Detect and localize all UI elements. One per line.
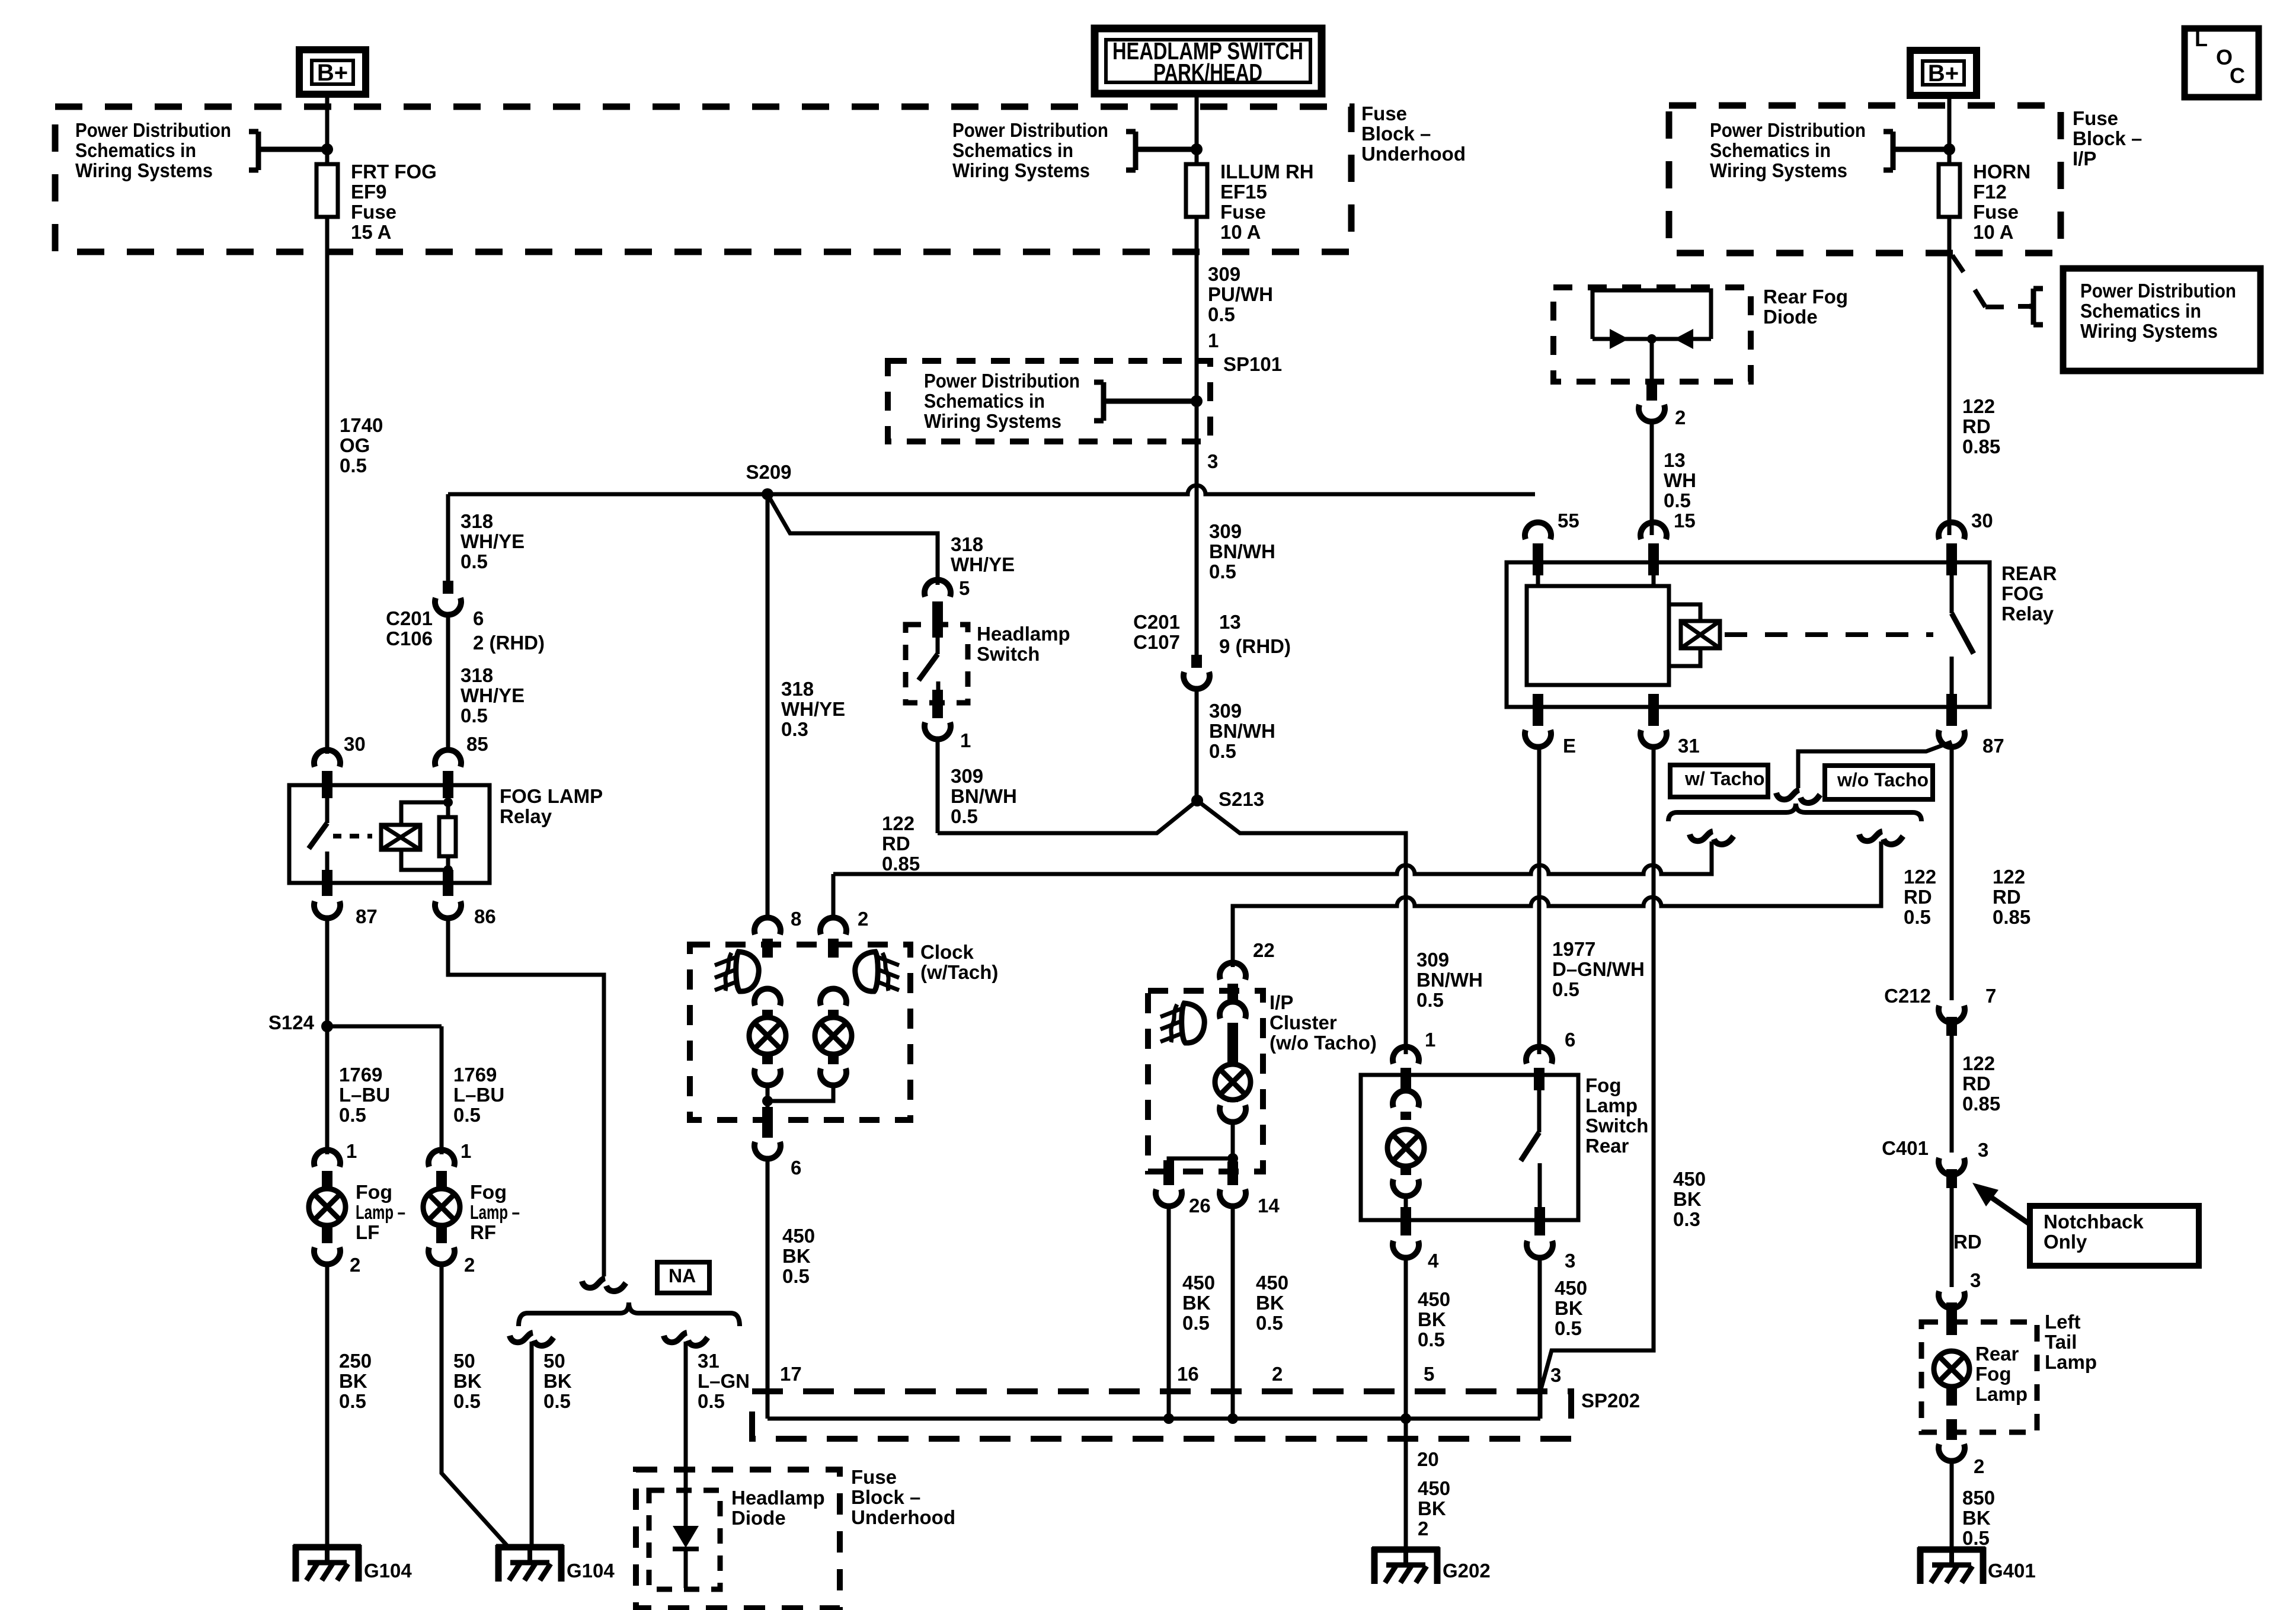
connector rear fog lamp 2	[1939, 1444, 1965, 1461]
dashed box Fuse Block - I/P	[1669, 105, 2061, 253]
svg-text:C201C106: C201C106	[386, 607, 433, 649]
svg-text:85: 85	[466, 733, 488, 755]
wire 318 WH/YE S209 bus	[448, 485, 1535, 494]
wire 309 BN/WH from switch	[936, 740, 940, 833]
connector relay pin E	[1525, 730, 1551, 747]
dashed box rear fog diode	[1553, 287, 1751, 382]
wire 450 BK pin26	[1167, 1206, 1171, 1419]
dashed box I/P cluster	[1148, 991, 1263, 1172]
svg-text:3: 3	[1565, 1250, 1575, 1272]
svg-text:7: 7	[1985, 985, 1996, 1007]
bracket ref 2	[1126, 132, 1193, 170]
lamp clock 1	[749, 1017, 786, 1054]
relay coil fog lamp relay	[350, 834, 372, 838]
fuse EF15 ILLUM RH 10A	[1186, 164, 1207, 217]
wire B+ to fuse F12	[1948, 95, 1952, 164]
svg-text:G104: G104	[567, 1560, 615, 1582]
connector C401	[1939, 1158, 1965, 1175]
svg-text:2: 2	[1974, 1455, 1984, 1477]
option box w/ Tacho	[1670, 765, 1768, 797]
relay blade fog lamp relay	[325, 785, 330, 823]
wire 1769 L-BU	[325, 918, 330, 1026]
svg-text:20: 20	[1417, 1448, 1439, 1470]
wire 450 BK from clock	[766, 1159, 770, 1419]
dashed box SP101 ref	[888, 361, 1210, 441]
svg-text:1: 1	[1425, 1029, 1435, 1051]
connector switch pin 3	[1527, 1241, 1553, 1258]
svg-text:14: 14	[1258, 1195, 1280, 1217]
relay coil resistor	[439, 817, 456, 856]
svg-text:SP202: SP202	[1581, 1390, 1640, 1411]
junction on EF9 feed	[321, 143, 333, 155]
connector headlamp switch pin 1	[925, 722, 951, 740]
junction on F12 feed	[1943, 143, 1955, 155]
wire 122 RD 0.85 down	[1950, 747, 1954, 1000]
svg-text:16: 16	[1177, 1363, 1199, 1385]
switch lamp top conn	[1393, 1090, 1419, 1108]
option box NA	[657, 1262, 709, 1293]
wire 450 BK to G202	[1404, 1258, 1408, 1548]
junction sp202 b	[1227, 1413, 1238, 1424]
svg-text:G104: G104	[364, 1560, 412, 1582]
svg-text:2: 2	[1675, 406, 1686, 428]
wire to pin 14	[1231, 1158, 1235, 1172]
diode pair rear fog diode	[1593, 290, 1711, 339]
connector relay pin 31	[1641, 730, 1667, 747]
break tick on wire	[1952, 255, 1964, 272]
reference box LOC	[2185, 28, 2259, 97]
wire 122 RD to relay 30	[1948, 217, 1952, 535]
wire 318 WH/YE to relay 85	[446, 615, 450, 752]
svg-text:87: 87	[1982, 735, 2004, 757]
icon fog beam right	[855, 952, 899, 991]
switch blade headlamp switch	[936, 625, 940, 654]
dashed box Fuse Block - Underhood	[55, 107, 1351, 252]
box REAR FOG relay	[1507, 562, 1990, 707]
connector lamp RF 1	[428, 1150, 455, 1167]
connector C201/C106	[435, 598, 461, 615]
diode headlamp diode	[673, 1526, 699, 1548]
wire 450 BK pin14	[1231, 1206, 1235, 1419]
svg-text:1: 1	[461, 1140, 471, 1162]
lamp fog RF	[423, 1189, 460, 1225]
break w/Tacho branch	[1690, 831, 1734, 844]
wire 122 RD to C401	[1950, 1036, 1954, 1153]
lamp rear fog	[1934, 1351, 1969, 1387]
svg-text:8: 8	[791, 908, 801, 930]
relay control module box	[1527, 586, 1669, 685]
svg-text:87: 87	[356, 905, 378, 927]
wire 50 BK RF	[442, 1265, 509, 1547]
svg-text:NA: NA	[669, 1265, 696, 1286]
svg-text:3: 3	[1970, 1269, 1981, 1291]
svg-text:2: 2	[858, 908, 868, 930]
connector clock pin 8	[754, 917, 781, 934]
svg-text:3: 3	[1550, 1364, 1561, 1386]
splice S124	[321, 1020, 333, 1032]
connector relay pin 87	[1939, 730, 1965, 747]
wire 13 WH	[1650, 422, 1654, 535]
break 31 L-GN option	[664, 1333, 708, 1346]
dashed link coil to contact	[1725, 632, 1933, 637]
wire 31 L-GN	[684, 1342, 688, 1526]
wire down to clock pin 2	[832, 874, 836, 920]
junction clock	[762, 1096, 773, 1106]
wire diode out	[1650, 339, 1654, 382]
wire w/o Tacho branch	[1879, 841, 1884, 906]
wire 122 RD to clock pin 2	[833, 841, 1712, 874]
connector clock pin 6	[754, 1142, 781, 1159]
connector C212	[1939, 1006, 1965, 1023]
wire RD notchback	[1950, 1188, 1954, 1287]
junction sp202 c	[1400, 1413, 1411, 1424]
connector relay pin 55	[1525, 522, 1551, 539]
dashed box left tail lamp	[1921, 1322, 2037, 1432]
svg-text:S213: S213	[1219, 788, 1264, 810]
cluster lamp top conn	[1220, 1001, 1246, 1019]
svg-text:C401: C401	[1882, 1137, 1929, 1159]
power symbol B+ (left)	[299, 50, 366, 94]
break NA option	[582, 1278, 626, 1291]
svg-text:2: 2	[350, 1254, 360, 1276]
svg-text:4: 4	[1428, 1250, 1439, 1272]
connector lamp LF 2	[314, 1247, 340, 1265]
svg-text:C212: C212	[1884, 985, 1931, 1007]
connector headlamp switch pin 5	[925, 580, 951, 597]
svg-text:2: 2	[1272, 1363, 1283, 1385]
svg-text:C: C	[2230, 63, 2245, 88]
splice SP101	[1191, 395, 1203, 407]
reference branch to power distribution (solid box)	[1975, 290, 1985, 307]
lamp clock 2	[815, 1017, 852, 1054]
clock lamp1 top conn	[754, 988, 781, 1006]
svg-text:5: 5	[1424, 1363, 1434, 1385]
wire clock lamps join	[768, 1086, 833, 1101]
wire S124 branch	[327, 1025, 442, 1029]
svg-text:15: 15	[1674, 510, 1696, 532]
bracket ref 5	[2029, 289, 2043, 325]
svg-text:6: 6	[1565, 1029, 1575, 1051]
wire 50 BK option b	[530, 1342, 534, 1546]
junction cluster	[1227, 1153, 1238, 1164]
svg-text:w/ Tacho: w/ Tacho	[1684, 768, 1765, 789]
wire 250 BK	[325, 1265, 330, 1546]
bracket ref 1	[249, 132, 324, 170]
connector relay pin 15	[1641, 522, 1667, 539]
wire to RF lamp	[440, 1026, 444, 1154]
svg-text:5: 5	[959, 577, 970, 599]
dashed box SP202	[752, 1391, 1571, 1439]
bracket ref 4	[1884, 132, 1946, 170]
solid box power distribution ref	[2063, 268, 2260, 371]
wire 318 WH/YE to C201	[446, 494, 450, 581]
lamp cluster	[1215, 1064, 1251, 1100]
box fog lamp switch rear	[1361, 1075, 1578, 1220]
svg-text:6: 6	[791, 1157, 801, 1179]
wire 87 to tacho options	[1798, 742, 1952, 788]
connector cluster pin 26	[1156, 1189, 1182, 1206]
component box HEADLAMP SWITCH PARK/HEAD	[1095, 28, 1322, 94]
connector lamp LF 1	[314, 1150, 340, 1167]
svg-text:3: 3	[1207, 450, 1218, 472]
svg-text:2: 2	[464, 1254, 475, 1276]
wire 850 BK	[1950, 1461, 1954, 1550]
wire 1977 D-GN/WH	[1537, 747, 1542, 1054]
ground G104 right	[496, 1545, 564, 1582]
svg-text:w/o Tacho: w/o Tacho	[1837, 769, 1929, 790]
svg-text:B+: B+	[317, 60, 348, 86]
svg-text:22: 22	[1253, 939, 1275, 961]
icon fog beam cluster	[1160, 1003, 1204, 1043]
svg-text:E: E	[1563, 735, 1576, 757]
wire B+ to fuse EF9	[325, 94, 330, 164]
dashed box headlamp diode	[649, 1490, 720, 1589]
connector relay30	[314, 750, 340, 767]
relay contact blade	[1950, 562, 1954, 613]
dashed box clock w/Tach	[690, 945, 910, 1120]
junction sp202 a	[1163, 1413, 1174, 1424]
wire S209 to headlamp switch	[768, 494, 938, 585]
arrow notchback only	[1972, 1183, 1998, 1206]
brace NA options	[519, 1302, 740, 1326]
connector switch pin 4	[1393, 1241, 1419, 1258]
wire S213 branches	[938, 801, 1406, 1054]
dashed box headlamp switch	[906, 625, 968, 703]
power symbol B+ (right)	[1910, 50, 1977, 95]
wire 318 WH/YE 0.3 to clock pin 8	[766, 494, 770, 920]
svg-text:30: 30	[344, 733, 366, 755]
lamp fog switch	[1387, 1129, 1424, 1166]
svg-text:C201C107: C201C107	[1133, 611, 1180, 653]
option box w/o Tacho	[1825, 766, 1933, 799]
ground G202	[1372, 1547, 1440, 1584]
wire w/Tacho branch	[1710, 841, 1714, 874]
svg-text:S209: S209	[746, 461, 791, 483]
wire to LF lamp	[325, 1026, 330, 1154]
svg-text:3: 3	[1978, 1139, 1988, 1161]
svg-text:L: L	[2195, 27, 2208, 51]
connector relay87	[314, 901, 340, 918]
connector fog switch pin 6	[1526, 1046, 1552, 1064]
connector clock pin 2	[820, 917, 846, 934]
splice S213	[1191, 795, 1203, 806]
svg-text:1: 1	[346, 1140, 357, 1162]
svg-text:2 (RHD): 2 (RHD)	[473, 632, 545, 654]
svg-text:SP101: SP101	[1223, 353, 1282, 375]
svg-text:9 (RHD): 9 (RHD)	[1219, 635, 1291, 657]
connector lamp RF 2	[428, 1247, 455, 1265]
wire 122 RD to cluster pin 22	[1233, 841, 1881, 967]
bus wire SP202	[768, 1417, 1540, 1421]
clock lamp2 top conn	[820, 988, 846, 1006]
wire 309 BN/WH to S213	[1195, 689, 1199, 801]
svg-text:B+: B+	[1928, 60, 1959, 87]
connector cluster pin 14	[1220, 1189, 1246, 1206]
break 50BK option	[510, 1333, 554, 1346]
box notchback only	[2030, 1206, 2199, 1266]
svg-text:6: 6	[473, 607, 484, 629]
switch blade fog lamp switch rear	[1537, 1075, 1542, 1132]
svg-text:30: 30	[1971, 510, 1993, 532]
svg-text:G401: G401	[1988, 1560, 2036, 1582]
fuse F12 HORN 10A	[1939, 164, 1960, 217]
svg-text:31: 31	[1678, 735, 1700, 757]
dashed box fuse block underhood (diode)	[636, 1470, 840, 1608]
icon fog beam left	[715, 952, 759, 991]
connector cluster pin 22	[1220, 962, 1246, 980]
svg-text:86: 86	[474, 905, 496, 927]
wire 86 to NA option	[448, 918, 604, 1276]
connector fog switch pin 1	[1393, 1046, 1419, 1064]
wire 1740 OG	[325, 217, 330, 754]
break to options	[1776, 790, 1820, 803]
connector C201/C107	[1184, 672, 1210, 689]
junction on EF15 feed	[1191, 143, 1203, 155]
relay coil with leads	[1669, 604, 1700, 621]
connector relay pin 30	[1939, 522, 1965, 539]
wire 309 PU/WH	[1195, 217, 1199, 655]
svg-text:G202: G202	[1443, 1560, 1491, 1582]
connector rear fog lamp 3	[1939, 1291, 1965, 1308]
svg-text:17: 17	[780, 1363, 802, 1385]
connector 2 of diode	[1639, 405, 1665, 422]
bracket ref 3	[1094, 382, 1192, 421]
connector relay86	[435, 901, 461, 918]
svg-text:26: 26	[1189, 1195, 1211, 1217]
connector relay85	[435, 750, 461, 767]
wire 450 BK pin3	[1538, 1258, 1542, 1419]
svg-text:1: 1	[1208, 329, 1219, 351]
svg-text:13: 13	[1219, 611, 1241, 633]
wire 450 BK 0.3	[1540, 747, 1654, 1419]
box FOG LAMP relay	[289, 785, 490, 883]
break w/o Tacho branch	[1859, 831, 1903, 844]
wire clock to pin 6	[766, 1086, 770, 1120]
fuse EF9 FRT FOG 15A	[316, 164, 338, 217]
splice S209	[762, 488, 773, 500]
svg-text:1: 1	[960, 729, 971, 751]
svg-text:S124: S124	[268, 1012, 315, 1033]
svg-text:55: 55	[1558, 510, 1579, 532]
wire headlamp switch feed	[1195, 94, 1199, 164]
ground G104 left	[293, 1545, 361, 1582]
lamp fog LF	[309, 1189, 346, 1225]
svg-text:RD: RD	[1953, 1231, 1982, 1253]
wire cluster lamp to pins	[1169, 1122, 1233, 1172]
ground G401	[1918, 1547, 1985, 1584]
brace alternatives	[1668, 804, 1921, 821]
